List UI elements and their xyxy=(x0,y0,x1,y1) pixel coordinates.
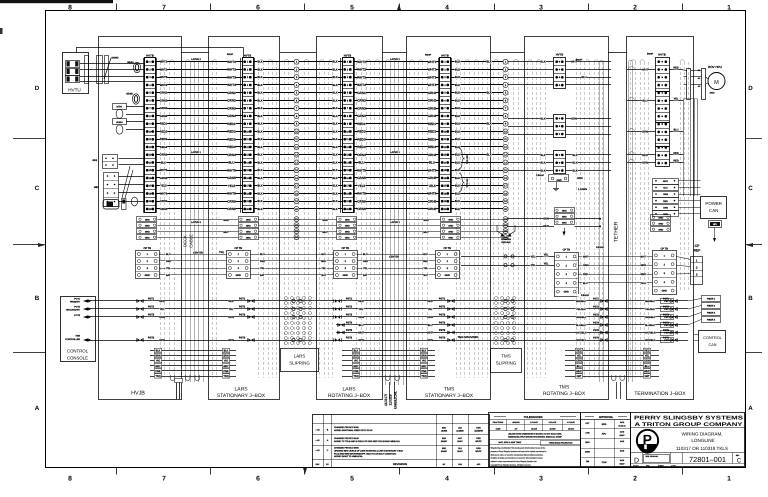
svg-text:BLK: BLK xyxy=(455,114,460,118)
svg-text:TMS: TMS xyxy=(75,335,80,338)
svg-text:BRN: BRN xyxy=(421,355,426,358)
svg-text:BLK: BLK xyxy=(486,154,491,157)
scan artifact black bar top-left xyxy=(0,0,113,3)
svg-text:GB5: GB5 xyxy=(94,186,99,189)
wire note 0.5mm xyxy=(577,294,593,297)
svg-text:YEL: YEL xyxy=(531,255,536,258)
svg-text:6mm²: 6mm² xyxy=(227,53,233,56)
cable bundle LARS slipring zone xyxy=(284,62,286,349)
svg-text:PST1: PST1 xyxy=(663,297,670,300)
svg-text:WHT: WHT xyxy=(642,69,648,72)
svg-text:PLUG AND NEW KEY/STANDOFF J-BO: PLUG AND NEW KEY/STANDOFF J-BOX TO AS BU… xyxy=(334,452,397,455)
svg-text:7: 7 xyxy=(162,476,166,483)
svg-text:WHT5: WHT5 xyxy=(227,168,236,172)
svg-text:YEL: YEL xyxy=(674,98,679,101)
svg-text:BLK: BLK xyxy=(257,83,262,87)
svg-text:CONTROL: CONTROL xyxy=(67,349,89,354)
svg-text:YEL: YEL xyxy=(544,254,549,257)
svg-text:HVTB: HVTB xyxy=(556,53,564,57)
svg-text:RED3: RED3 xyxy=(160,138,168,141)
top band BLK labels right of LARS STATIONARY strip xyxy=(257,60,263,211)
svg-text:ORN4: ORN4 xyxy=(227,153,236,157)
svg-text:BLK: BLK xyxy=(257,106,262,110)
svg-text:BLK: BLK xyxy=(257,160,262,164)
svg-text:GND: GND xyxy=(145,274,151,277)
svg-text:HVTB: HVTB xyxy=(441,53,449,57)
svg-text:GRN: GRN xyxy=(159,339,165,342)
svg-text:BLU: BLU xyxy=(423,253,428,256)
svg-text:ORN: ORN xyxy=(159,316,165,319)
svg-text:BLK: BLK xyxy=(332,168,337,172)
svg-text:PST3: PST3 xyxy=(439,313,446,316)
svg-text:BLK: BLK xyxy=(332,184,337,188)
svg-text:RED2: RED2 xyxy=(357,130,366,134)
svg-text:PST5: PST5 xyxy=(593,329,600,332)
svg-text:BLK: BLK xyxy=(455,153,460,157)
svg-text:YEL: YEL xyxy=(359,308,364,311)
svg-text:WHT4: WHT4 xyxy=(160,84,168,87)
svg-text:BLK: BLK xyxy=(455,207,460,211)
ground symbol TMS ROTATING xyxy=(556,182,558,188)
svg-text:GRN/BLK: GRN/BLK xyxy=(645,339,656,342)
svg-text:BLK: BLK xyxy=(332,106,337,110)
svg-text:GRN: GRN xyxy=(543,218,549,221)
svg-text:GND: GND xyxy=(236,274,242,277)
svg-text:WHT1: WHT1 xyxy=(160,61,168,64)
svg-text:BLK: BLK xyxy=(332,145,337,149)
svg-text:BLU: BLU xyxy=(674,129,679,132)
svg-text:DECK: DECK xyxy=(183,235,188,247)
svg-text:±1/32: ±1/32 xyxy=(496,427,501,430)
svg-text:BLU: BLU xyxy=(321,253,326,256)
svg-text:RED: RED xyxy=(321,260,326,263)
svg-text:PST1: PST1 xyxy=(346,297,353,300)
svg-text:YEL5: YEL5 xyxy=(358,184,366,188)
connector MTH xyxy=(113,104,127,110)
svg-text:APPROVAL: APPROVAL xyxy=(599,416,614,419)
svg-text:6mm²: 6mm² xyxy=(425,54,431,57)
svg-text:PST6: PST6 xyxy=(593,336,600,339)
svg-text:ORN6: ORN6 xyxy=(227,207,236,211)
svg-text:RED: RED xyxy=(644,350,649,353)
svg-text:GRN: GRN xyxy=(577,177,583,180)
svg-text:TMS DATA/VIDEO: TMS DATA/VIDEO xyxy=(458,336,479,339)
svg-text:ERD: ERD xyxy=(442,437,447,440)
svg-text:8: 8 xyxy=(68,476,72,483)
enclosure TERMINATION J-BOX xyxy=(627,37,694,400)
terminal strip group 1 wires xyxy=(508,61,554,63)
svg-text:BLK: BLK xyxy=(455,122,460,126)
cable size note above strips xyxy=(223,53,237,56)
svg-text:Copyright Perry Slingsby Syste: Copyright Perry Slingsby Systems. All ri… xyxy=(491,463,532,466)
svg-text:PST2: PST2 xyxy=(439,305,446,308)
svg-text:TMS: TMS xyxy=(501,354,510,359)
svg-text:VIO: VIO xyxy=(156,360,160,363)
svg-text:BLU: BLU xyxy=(645,365,650,368)
svg-text:PST6: PST6 xyxy=(346,336,353,339)
svg-text:BLK: BLK xyxy=(422,350,427,353)
svg-text:BLK: BLK xyxy=(455,91,460,95)
slipring ground detail xyxy=(497,225,503,235)
svg-text:110317/: 110317/ xyxy=(384,394,388,406)
svg-text:3 PLACE: 3 PLACE xyxy=(549,421,557,424)
connector HVMH xyxy=(113,119,127,125)
wire POWER CAN to CP REF xyxy=(714,228,716,239)
svg-text:HVMH: HVMH xyxy=(116,121,123,124)
svg-text:RED: RED xyxy=(423,260,428,263)
svg-text:ORN6: ORN6 xyxy=(428,207,437,211)
svg-text:CP: CP xyxy=(695,244,700,248)
wires fiber stack to CONTROL CAN xyxy=(694,334,699,336)
svg-text:QM: QM xyxy=(586,460,590,463)
mid band CENTER labels xyxy=(193,252,202,255)
svg-text:POT1: POT1 xyxy=(74,298,80,301)
svg-text:PNK: PNK xyxy=(353,370,358,373)
svg-text:GRN: GRN xyxy=(663,193,668,196)
Perry logo xyxy=(637,430,658,451)
svg-text:BLK: BLK xyxy=(573,162,578,165)
GFI box xyxy=(709,221,722,228)
svg-text:OP TB: OP TB xyxy=(235,247,243,250)
alignment arrow bottom border xyxy=(303,468,307,474)
svg-text:YEL: YEL xyxy=(363,267,368,270)
svg-text:PST5: PST5 xyxy=(439,329,446,332)
cable bundle inside HVJB xyxy=(160,62,162,378)
cable trough lid lines between enclosures xyxy=(181,52,209,54)
umbilical bundle between LARS ROTATING and TMS STATIONARY J-BOX xyxy=(385,62,387,385)
svg-text:BLK: BLK xyxy=(257,137,262,141)
svg-text:D: D xyxy=(35,85,40,92)
svg-text:BLK: BLK xyxy=(455,83,460,87)
svg-text:ROV HPU: ROV HPU xyxy=(708,65,722,69)
svg-text:PST3: PST3 xyxy=(663,313,670,316)
svg-text:BLU: BLU xyxy=(161,161,166,164)
svg-text:GRN: GRN xyxy=(641,264,647,267)
cable bundle TMS slipring zone xyxy=(493,62,495,349)
svg-text:BLU: BLU xyxy=(642,100,647,103)
svg-text:NAT: NAT xyxy=(577,375,582,378)
svg-text:GRN: GRN xyxy=(228,339,234,342)
svg-text:ANGLES: ANGLES xyxy=(512,421,520,424)
svg-text:CENTER: CENTER xyxy=(193,252,203,255)
svg-text:PST6: PST6 xyxy=(148,336,155,339)
cable end hooks tether xyxy=(612,375,616,381)
lower band inline connectors and labels xyxy=(137,297,678,342)
grommet GB4B xyxy=(132,94,139,104)
svg-text:LAYER 2: LAYER 2 xyxy=(390,58,400,61)
svg-text:YEL: YEL xyxy=(423,267,428,270)
svg-text:WHT5: WHT5 xyxy=(357,168,366,172)
svg-text:FIBER 2: FIBER 2 xyxy=(707,305,716,308)
svg-text:3: 3 xyxy=(539,4,543,11)
svg-text:LONGLINE: LONGLINE xyxy=(691,438,714,443)
svg-text:11/28/06: 11/28/06 xyxy=(474,429,483,432)
GND terminal block (TMS ROTATING) xyxy=(555,208,575,213)
terminal strip HVTB (TMS ROTATING) group 1 xyxy=(554,58,566,89)
svg-text:GRN/BLK: GRN/BLK xyxy=(576,339,587,342)
svg-text:FIBER 4: FIBER 4 xyxy=(707,319,716,322)
svg-text:CHANGED PER ECO 8606: CHANGED PER ECO 8606 xyxy=(334,447,359,450)
svg-text:GND: GND xyxy=(562,209,567,212)
svg-text:GB4B: GB4B xyxy=(126,93,133,96)
top band BLK labels right of TMS STATIONARY strip xyxy=(455,60,461,211)
svg-text:GRN3: GRN3 xyxy=(357,106,366,110)
svg-text:PRIMARY: PRIMARY xyxy=(70,301,80,304)
svg-text:C: C xyxy=(748,185,753,192)
svg-text:ROTATING J–BOX: ROTATING J–BOX xyxy=(328,393,371,399)
svg-text:PST2: PST2 xyxy=(663,305,670,308)
svg-text:RED: RED xyxy=(260,260,265,263)
svg-text:RED: RED xyxy=(427,300,432,303)
svg-text:PST4: PST4 xyxy=(664,324,670,327)
svg-text:RED4: RED4 xyxy=(160,146,168,149)
svg-text:RED: RED xyxy=(673,160,678,163)
svg-text:MAT’L SPEC & HEAT TREAT: MAT’L SPEC & HEAT TREAT xyxy=(499,441,523,444)
approval block xyxy=(581,413,631,467)
svg-text:BAT: BAT xyxy=(166,274,171,277)
svg-text:disclosed to others or used fo: disclosed to others or used for manufact… xyxy=(491,453,544,456)
svg-text:BLK: BLK xyxy=(224,350,229,353)
svg-text:PST3: PST3 xyxy=(148,313,155,316)
svg-text:B: B xyxy=(35,295,40,302)
top band BLK labels left of LARS ROTATING strip xyxy=(332,60,338,211)
svg-text:BLK: BLK xyxy=(257,98,262,102)
svg-text:BLK: BLK xyxy=(573,170,578,173)
GND terminal block (LARS ROTATING) xyxy=(337,217,357,222)
svg-text:±0.010: ±0.010 xyxy=(531,427,537,430)
svg-text:OP TB: OP TB xyxy=(444,247,452,250)
svg-text:GB4A: GB4A xyxy=(127,61,134,64)
svg-text:GND: GND xyxy=(562,215,567,218)
tether conductor stack xyxy=(565,350,659,352)
svg-text:BAT: BAT xyxy=(363,274,368,277)
svg-text:GND: GND xyxy=(662,290,668,293)
svg-text:CAN: CAN xyxy=(709,208,718,213)
svg-text:ADDED TO TITLE AND IN FIELD OF: ADDED TO TITLE AND IN FIELD OF DWG REF F… xyxy=(334,440,401,443)
svg-text:GND: GND xyxy=(145,230,150,233)
grommet below HVMH xyxy=(116,125,123,134)
revisions table xyxy=(313,415,490,468)
POWER CAN enclosure xyxy=(701,197,727,219)
svg-text:WHT2: WHT2 xyxy=(428,68,437,72)
svg-text:BLK: BLK xyxy=(257,60,262,64)
svg-text:TSQ: TSQ xyxy=(219,251,224,254)
svg-text:WHT3: WHT3 xyxy=(227,75,236,79)
svg-text:GRN2: GRN2 xyxy=(428,99,437,103)
svg-text:GRN5: GRN5 xyxy=(160,177,168,180)
svg-text:BLK: BLK xyxy=(332,98,337,102)
svg-text:YEL: YEL xyxy=(645,355,650,358)
svg-text:8: 8 xyxy=(68,4,72,11)
svg-text:PST6: PST6 xyxy=(663,336,670,339)
ground wire labels xyxy=(223,219,228,222)
svg-text:WHT/BLK: WHT/BLK xyxy=(645,331,656,334)
GND terminal block (LARS STATIONARY) xyxy=(239,217,259,222)
svg-text:WHT: WHT xyxy=(663,180,669,183)
svg-text:TMS: TMS xyxy=(559,385,570,391)
svg-text:CP TB: CP TB xyxy=(661,248,669,251)
svg-text:GRN6: GRN6 xyxy=(227,199,236,203)
svg-text:3: 3 xyxy=(539,476,543,483)
svg-text:RED1: RED1 xyxy=(357,122,366,126)
svg-text:0.5mm²: 0.5mm² xyxy=(596,246,604,249)
svg-text:GND: GND xyxy=(145,236,150,239)
diagonal jog wires left column xyxy=(122,166,130,198)
connector OP TB (LARS STATIONARY) xyxy=(227,251,251,279)
svg-text:RED1: RED1 xyxy=(227,122,236,126)
svg-text:C: C xyxy=(35,185,40,192)
svg-text:6/1/07: 6/1/07 xyxy=(620,434,625,437)
svg-text:GRN: GRN xyxy=(642,162,648,165)
svg-text:ORN: ORN xyxy=(644,360,650,363)
svg-text:TRQ: TRQ xyxy=(353,375,358,378)
svg-text:WHT: WHT xyxy=(576,370,582,373)
svg-text:PST2: PST2 xyxy=(346,305,353,308)
svg-text:GND: GND xyxy=(343,274,349,277)
cable bundles inside TMS ROTATING J-BOX xyxy=(527,62,529,378)
svg-text:1 OF 1: 1 OF 1 xyxy=(671,464,676,467)
svg-text:D: D xyxy=(748,85,753,92)
svg-text:REVISIONS: REVISIONS xyxy=(393,463,407,466)
svg-text:YEL5: YEL5 xyxy=(160,185,167,188)
svg-text:PST4: PST4 xyxy=(663,321,670,324)
umbilical conductor stack xyxy=(342,350,435,352)
svg-text:WHT: WHT xyxy=(423,231,429,234)
svg-text:BLU/BLK: BLU/BLK xyxy=(576,324,586,327)
svg-text:BLK: BLK xyxy=(332,114,337,118)
svg-text:RED: RED xyxy=(159,300,164,303)
svg-text:GRN1: GRN1 xyxy=(227,91,236,95)
svg-text:PST2: PST2 xyxy=(148,305,155,308)
svg-text:6/1/07: 6/1/07 xyxy=(475,440,482,443)
svg-text:GRN5: GRN5 xyxy=(357,176,366,180)
tolerances block xyxy=(489,413,581,467)
svg-text:BLK: BLK xyxy=(332,160,337,164)
svg-text:BLU: BLU xyxy=(166,253,171,256)
svg-text:GRN4: GRN4 xyxy=(357,114,366,118)
svg-text:6/15/07: 6/15/07 xyxy=(441,450,447,453)
svg-text:WHT: WHT xyxy=(571,61,577,64)
svg-text:BRN: BRN xyxy=(155,355,160,358)
svg-text:6AWG: 6AWG xyxy=(112,57,119,60)
svg-text:FRACTIONS: FRACTIONS xyxy=(493,421,504,424)
svg-text:BRN: BRN xyxy=(223,355,228,358)
svg-text:UMBILICAL: UMBILICAL xyxy=(394,391,398,409)
svg-text:11/28/06: 11/28/06 xyxy=(456,429,463,432)
svg-text:RED3: RED3 xyxy=(357,137,366,141)
svg-text:GND: GND xyxy=(246,236,251,239)
mid band wires CP TB interconnects xyxy=(578,256,653,258)
svg-text:TKS HPU: TKS HPU xyxy=(466,154,469,164)
svg-text:LAYER 3: LAYER 3 xyxy=(191,221,201,224)
svg-text:POT3: POT3 xyxy=(74,314,80,317)
svg-text:ORN: ORN xyxy=(427,316,433,319)
svg-text:PST6: PST6 xyxy=(239,336,246,339)
svg-text:LARS: LARS xyxy=(294,354,306,359)
svg-text:WHT3: WHT3 xyxy=(357,75,366,79)
svg-text:USA: USA xyxy=(476,447,481,450)
svg-text:RED: RED xyxy=(228,300,233,303)
svg-text:RED4: RED4 xyxy=(428,145,437,149)
svg-text:BAT: BAT xyxy=(260,274,265,277)
svg-text:DIMENSIONS APPLY BEFORE PROCES: DIMENSIONS APPLY BEFORE PROCESSING. BREA… xyxy=(508,436,562,439)
enclosure TMS ROTATING J-BOX xyxy=(525,37,609,400)
svg-text:FIBER 1: FIBER 1 xyxy=(707,298,716,301)
svg-text:ORN4: ORN4 xyxy=(160,154,168,157)
svg-text:OP TB: OP TB xyxy=(144,247,152,250)
svg-text:BLK: BLK xyxy=(455,129,460,133)
svg-text:TETHER: TETHER xyxy=(614,221,620,242)
HVTU enclosure xyxy=(63,53,89,94)
svg-text:GRN: GRN xyxy=(322,219,328,222)
terminal strip HVTB (TMS ROTATING) group 3 xyxy=(554,151,566,174)
svg-text:BLK: BLK xyxy=(541,162,546,165)
svg-text:—XX: —XX xyxy=(315,428,320,431)
terminal strip HVTB (HVJB) xyxy=(145,58,156,213)
svg-text:GND: GND xyxy=(145,218,150,221)
6mm2 note xyxy=(643,53,657,56)
svg-text:GND: GND xyxy=(658,222,663,225)
svg-text:GRN3: GRN3 xyxy=(160,107,168,110)
svg-text:GND: GND xyxy=(448,236,453,239)
deck cable bundle between HVJB and LARS STATIONARY J-BOX xyxy=(185,62,187,382)
svg-text:GRN6: GRN6 xyxy=(357,199,366,203)
svg-text:LAYER 1: LAYER 1 xyxy=(191,151,201,154)
svg-text:YEL: YEL xyxy=(260,267,265,270)
svg-text:PST2: PST2 xyxy=(664,308,670,311)
svg-text:TRQ: TRQ xyxy=(421,375,426,378)
svg-text:GRN: GRN xyxy=(427,339,433,342)
svg-text:USA: USA xyxy=(476,426,481,429)
svg-text:YEL: YEL xyxy=(166,267,171,270)
svg-text:BLK: BLK xyxy=(486,61,491,64)
svg-text:WHT2: WHT2 xyxy=(357,68,366,72)
svg-text:GRN: GRN xyxy=(358,339,364,342)
svg-text:CONTROL: CONTROL xyxy=(703,336,722,340)
svg-text:POT2: POT2 xyxy=(74,306,80,309)
svg-text:BLK: BLK xyxy=(332,153,337,157)
top band wire labels right of LARS ROTATING strip xyxy=(357,60,366,211)
svg-text:ORN: ORN xyxy=(663,206,668,209)
top band BLK labels before TMS slipring xyxy=(486,60,492,63)
svg-text:PST1: PST1 xyxy=(664,300,670,303)
svg-text:VIO: VIO xyxy=(224,360,228,363)
svg-text:WHT6: WHT6 xyxy=(428,192,437,196)
svg-text:RED: RED xyxy=(663,200,668,203)
svg-text:NAT: NAT xyxy=(645,375,650,378)
connector OP TB (TMS STATIONARY) xyxy=(436,251,460,279)
svg-text:M: M xyxy=(714,80,719,86)
svg-text:1/16/06: 1/16/06 xyxy=(441,429,447,432)
svg-text:RED2: RED2 xyxy=(160,130,168,133)
svg-text:GND: GND xyxy=(145,224,150,227)
svg-text:5: 5 xyxy=(350,4,354,11)
svg-text:BLK: BLK xyxy=(257,114,262,118)
svg-text:BLK: BLK xyxy=(332,199,337,203)
svg-text:—XX: —XX xyxy=(315,449,320,452)
svg-text:ORN6: ORN6 xyxy=(160,208,168,211)
svg-text:A: A xyxy=(35,405,40,412)
svg-text:BLK: BLK xyxy=(455,106,460,110)
svg-text:PST3: PST3 xyxy=(593,313,600,316)
svg-text:GND: GND xyxy=(710,92,715,95)
svg-text:WHT4: WHT4 xyxy=(428,83,437,87)
svg-text:BLK: BLK xyxy=(257,199,262,203)
svg-text:BLK: BLK xyxy=(332,137,337,141)
wire HVTU top jumper to LARS strip xyxy=(76,48,78,54)
svg-text:CONTROLLER: CONTROLLER xyxy=(65,338,80,341)
svg-text:6/1/07: 6/1/07 xyxy=(620,463,625,466)
